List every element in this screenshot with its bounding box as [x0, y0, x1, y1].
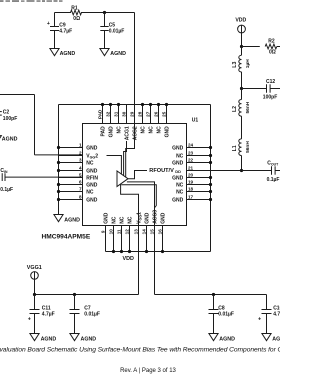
svg-text:18: 18: [188, 186, 194, 191]
pin 18 (right): [187, 191, 211, 193]
pin 7 (left): [59, 191, 83, 193]
svg-text:GND: GND: [86, 183, 98, 189]
capacitor C9: [54, 13, 56, 27]
pin 16 (bottom): [162, 226, 164, 252]
node C7 junction: [73, 293, 76, 296]
svg-text:GND: GND: [164, 126, 170, 138]
wire left GND bus: [58, 105, 60, 215]
svg-text:4: 4: [79, 165, 82, 170]
ground AGND (under C11): [30, 334, 39, 341]
svg-text:VDD: VDD: [235, 18, 246, 24]
svg-text:ACG2: ACG2: [132, 126, 138, 140]
svg-text:GND: GND: [172, 176, 184, 182]
svg-text:30: 30: [121, 111, 126, 117]
svg-text:NC: NC: [176, 183, 184, 189]
svg-text:26: 26: [153, 111, 158, 117]
svg-text:RFOUT/V: RFOUT/V: [149, 168, 174, 174]
svg-text:0.01µF: 0.01µF: [109, 29, 125, 35]
wire VGG2 net: [35, 154, 83, 156]
pin 14 (bottom): [146, 226, 148, 252]
svg-text:NC: NC: [127, 216, 133, 224]
svg-text:GND: GND: [86, 169, 98, 175]
pin 25 (top): [166, 105, 168, 124]
svg-text:4.7µF: 4.7µF: [59, 29, 72, 35]
svg-text:+: +: [47, 21, 50, 27]
pin 27 (top): [150, 105, 152, 124]
wire R2 to edge: [277, 46, 280, 48]
svg-text:28: 28: [137, 111, 142, 117]
svg-text:8: 8: [79, 194, 82, 199]
pin 15 (bottom): [154, 226, 156, 252]
ground AGND (under C9): [50, 49, 59, 56]
svg-text:HMC994APM5E: HMC994APM5E: [42, 234, 91, 241]
svg-text:NC: NC: [119, 216, 125, 224]
capacitor C12: [266, 84, 268, 92]
svg-text:GND: GND: [86, 198, 98, 204]
capacitor COUT: [271, 166, 273, 174]
pin 6 (left): [59, 184, 83, 186]
svg-text:AGND: AGND: [64, 217, 80, 223]
svg-text:0.01µF: 0.01µF: [218, 312, 234, 318]
svg-text:24: 24: [188, 142, 194, 147]
pin 12 (bottom): [129, 226, 131, 252]
node L3/L2/C12 junction: [240, 87, 243, 90]
svg-text:AGND: AGND: [272, 336, 280, 342]
pin 5 (left): [59, 177, 83, 179]
svg-text:100pF: 100pF: [263, 95, 277, 101]
svg-text:PAD: PAD: [97, 109, 102, 119]
svg-text:13: 13: [133, 229, 138, 235]
svg-text:NC: NC: [140, 126, 146, 134]
wire ACG3 net: [154, 252, 156, 295]
node RFOUT junction: [240, 169, 243, 172]
pin 2 (left): [59, 155, 83, 157]
svg-text:32: 32: [105, 111, 110, 117]
wire VGG2 internal: [107, 156, 122, 175]
svg-text:L2: L2: [232, 106, 238, 112]
pin 19 (right): [187, 184, 211, 186]
svg-text:0.1µF: 0.1µF: [0, 187, 13, 193]
svg-text:56nH: 56nH: [245, 141, 251, 153]
svg-text:25: 25: [161, 111, 166, 117]
pin 31 (top): [118, 105, 120, 124]
svg-text:NC: NC: [86, 161, 94, 167]
pin 26 (top): [158, 105, 160, 124]
svg-text:AGND: AGND: [81, 336, 97, 342]
svg-text:L1: L1: [232, 145, 238, 151]
ground AGND (under C8): [209, 334, 218, 341]
pin 20 (right): [187, 177, 211, 179]
node C8 junction: [212, 293, 215, 296]
pin 28 (top): [142, 105, 144, 124]
svg-text:VGG1: VGG1: [27, 265, 42, 271]
svg-text:valuation Board Schematic Usin: valuation Board Schematic Using Surface-…: [0, 347, 280, 354]
svg-text:NC: NC: [176, 190, 184, 196]
svg-text:6: 6: [79, 179, 82, 184]
svg-text:11: 11: [116, 229, 121, 234]
pin 24 (right): [187, 147, 211, 149]
svg-text:+: +: [28, 317, 31, 323]
svg-text:9: 9: [100, 230, 105, 233]
svg-text:RFIN: RFIN: [86, 176, 98, 182]
svg-text:NC: NC: [156, 126, 162, 134]
pin 10 (bottom): [113, 226, 115, 252]
wire junction to C12: [242, 88, 267, 90]
svg-text:AGND: AGND: [110, 51, 126, 57]
svg-text:29: 29: [129, 111, 134, 117]
clipped text fragment (top edge): [0, 0, 63, 2]
svg-text:21: 21: [188, 165, 194, 170]
pin 23 (right): [187, 155, 211, 157]
svg-text:U1: U1: [192, 118, 199, 124]
svg-text:17: 17: [188, 194, 194, 199]
wire ACG3 internal: [127, 182, 155, 226]
svg-text:1µH: 1µH: [245, 59, 251, 68]
pin 13 (bottom): [138, 226, 140, 252]
svg-text:12: 12: [124, 229, 129, 235]
svg-text:ACG1: ACG1: [124, 126, 130, 140]
svg-text:R1: R1: [71, 5, 78, 11]
capacitor C8: [213, 295, 215, 310]
svg-text:GND: GND: [86, 146, 98, 152]
ground AGND (under C5): [100, 49, 109, 56]
svg-text:GND: GND: [172, 146, 184, 152]
svg-text:7: 7: [79, 186, 82, 191]
svg-text:15: 15: [149, 229, 154, 235]
svg-text:AGND: AGND: [60, 51, 76, 57]
ground AGND (under C10, clipped): [262, 334, 271, 341]
svg-text:VDD: VDD: [123, 256, 134, 262]
capacitor C10 (clipped at right edge): [266, 295, 268, 310]
amplifier triangle (inside U1): [117, 171, 128, 187]
node VGG1/C11 junction: [33, 293, 36, 296]
wire top rail left segment: [55, 12, 72, 14]
svg-text:0.01µF: 0.01µF: [84, 312, 100, 318]
svg-text:AGND: AGND: [2, 137, 18, 143]
pin 8 (left): [59, 199, 83, 201]
svg-text:NC: NC: [111, 216, 117, 224]
ground AGND (under C2, clipped): [0, 136, 1, 143]
wire ACG1 internal: [124, 141, 127, 176]
wire VDD to R2: [242, 46, 260, 48]
capacitor C7: [74, 295, 76, 310]
pin 1 (left): [59, 147, 83, 149]
svg-text:23: 23: [188, 150, 194, 155]
svg-text:31: 31: [113, 111, 118, 117]
inductor L1: [239, 139, 242, 156]
pin 21 (right): [187, 170, 272, 172]
ground AGND (left bus): [54, 215, 63, 222]
svg-text:4.7µF: 4.7µF: [273, 312, 280, 318]
pin 30 (top): [126, 105, 128, 124]
svg-text:0.1µF: 0.1µF: [267, 177, 280, 183]
svg-text:1: 1: [79, 142, 82, 147]
svg-text:GND: GND: [103, 212, 109, 224]
svg-text:L3: L3: [232, 62, 238, 68]
svg-text:NC: NC: [116, 126, 122, 134]
capacitor C5: [104, 13, 106, 27]
svg-text:0Ω: 0Ω: [73, 16, 80, 22]
svg-text:GND: GND: [160, 212, 166, 224]
pin 9 (bottom): [105, 226, 107, 252]
pin 17 (right): [187, 199, 211, 201]
node C5 junction: [103, 11, 106, 14]
pin 3 (left): [59, 162, 83, 164]
pin 22 (right): [187, 162, 211, 164]
svg-text:C12: C12: [266, 79, 275, 85]
svg-text:GND: GND: [172, 198, 184, 204]
svg-text:ACG3: ACG3: [152, 210, 158, 224]
svg-text:5: 5: [79, 172, 82, 177]
wire RFOUT internal: [128, 171, 147, 179]
wire VGG1 net: [138, 252, 140, 295]
svg-text:+: +: [258, 317, 261, 323]
capacitor C2 (clipped at left edge): [0, 111, 2, 113]
svg-text:GND: GND: [108, 126, 114, 138]
svg-text:0Ω: 0Ω: [269, 49, 276, 55]
resistor R1: [71, 10, 82, 15]
svg-text:GND: GND: [144, 212, 150, 224]
svg-text:3: 3: [79, 157, 82, 162]
svg-text:10: 10: [108, 229, 113, 235]
pin 32 (top): [110, 105, 112, 124]
svg-text:AGND: AGND: [41, 336, 57, 342]
svg-text:4.7µF: 4.7µF: [42, 312, 55, 318]
svg-text:27: 27: [145, 111, 150, 117]
op-amp U1 body (HMC994APM5E): [83, 124, 187, 226]
svg-text:56nH: 56nH: [245, 101, 251, 113]
svg-text:AGND: AGND: [219, 336, 235, 342]
svg-text:14: 14: [141, 229, 146, 235]
node VDD junction: [240, 45, 243, 48]
svg-text:22: 22: [188, 157, 194, 162]
svg-text:OUT: OUT: [271, 163, 279, 167]
wire VGG1 internal: [121, 184, 139, 226]
pin 11 (bottom): [121, 226, 123, 252]
svg-text:Rev. A | Page 3 of 13: Rev. A | Page 3 of 13: [120, 368, 176, 374]
capacitor C11: [34, 295, 36, 310]
ground AGND (under C7): [70, 334, 79, 341]
svg-text:NC: NC: [86, 190, 94, 196]
svg-text:NC: NC: [148, 126, 154, 134]
svg-text:100pF: 100pF: [3, 116, 17, 122]
svg-text:PAD: PAD: [100, 126, 106, 137]
wire top rail right segment to pin29 (ACG2): [81, 12, 135, 14]
pin PAD (top): [102, 105, 104, 124]
svg-text:19: 19: [188, 179, 194, 184]
resistor R2: [265, 44, 277, 49]
svg-text:DD: DD: [175, 169, 181, 174]
svg-text:GND: GND: [172, 161, 184, 167]
svg-text:16: 16: [157, 229, 162, 235]
svg-text:NC: NC: [176, 154, 184, 160]
inductor L2: [241, 89, 243, 100]
pin 4 (left): [59, 170, 83, 172]
svg-text:R2: R2: [268, 38, 275, 44]
inductor L3: [241, 47, 243, 56]
svg-text:C2: C2: [3, 110, 10, 116]
svg-text:20: 20: [188, 172, 194, 177]
wire GND ring (top/right/bottom): [59, 104, 211, 106]
wire ACG2 internal: [126, 124, 135, 178]
